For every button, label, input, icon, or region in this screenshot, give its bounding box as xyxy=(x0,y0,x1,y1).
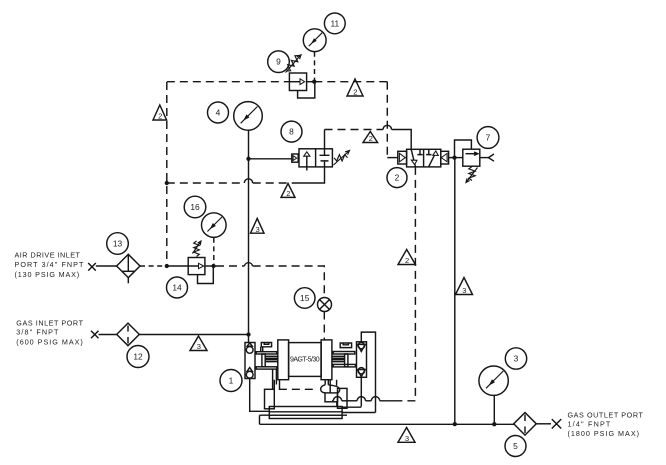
svg-text:2: 2 xyxy=(158,112,162,121)
svg-text:9: 9 xyxy=(276,57,281,67)
svg-text:3: 3 xyxy=(462,286,466,295)
svg-text:3: 3 xyxy=(197,342,201,351)
svg-text:13: 13 xyxy=(113,239,123,249)
svg-text:AIR DRIVE INLET: AIR DRIVE INLET xyxy=(15,251,81,260)
svg-text:7: 7 xyxy=(486,133,491,143)
svg-text:12: 12 xyxy=(133,352,143,362)
svg-text:3: 3 xyxy=(405,434,409,443)
svg-text:3/8" FNPT: 3/8" FNPT xyxy=(16,327,59,336)
svg-text:(130 PSIG MAX): (130 PSIG MAX) xyxy=(15,270,81,279)
svg-text:3: 3 xyxy=(514,354,519,364)
svg-text:2: 2 xyxy=(353,88,357,97)
svg-text:2: 2 xyxy=(286,189,290,198)
svg-text:11: 11 xyxy=(330,18,339,28)
svg-text:2: 2 xyxy=(369,134,373,143)
svg-text:GAS INLET PORT: GAS INLET PORT xyxy=(16,318,83,327)
svg-text:2: 2 xyxy=(405,256,409,265)
svg-text:(600 PSIG MAX): (600 PSIG MAX) xyxy=(16,338,84,347)
svg-text:2: 2 xyxy=(395,173,400,183)
svg-text:GAS OUTLET PORT: GAS OUTLET PORT xyxy=(568,410,644,419)
svg-text:9AGT-5/30: 9AGT-5/30 xyxy=(290,357,320,364)
svg-text:(1800 PSIG MAX): (1800 PSIG MAX) xyxy=(568,429,641,438)
svg-text:15: 15 xyxy=(300,293,310,303)
svg-text:16: 16 xyxy=(190,202,200,212)
svg-text:4: 4 xyxy=(216,108,221,118)
svg-text:5: 5 xyxy=(513,441,518,451)
svg-text:3: 3 xyxy=(255,225,259,234)
svg-text:PORT 3/4" FNPT: PORT 3/4" FNPT xyxy=(15,260,85,269)
svg-text:14: 14 xyxy=(172,283,182,293)
svg-text:1: 1 xyxy=(229,376,234,386)
svg-text:8: 8 xyxy=(289,127,294,137)
svg-text:1/4" FNPT: 1/4" FNPT xyxy=(568,420,612,429)
